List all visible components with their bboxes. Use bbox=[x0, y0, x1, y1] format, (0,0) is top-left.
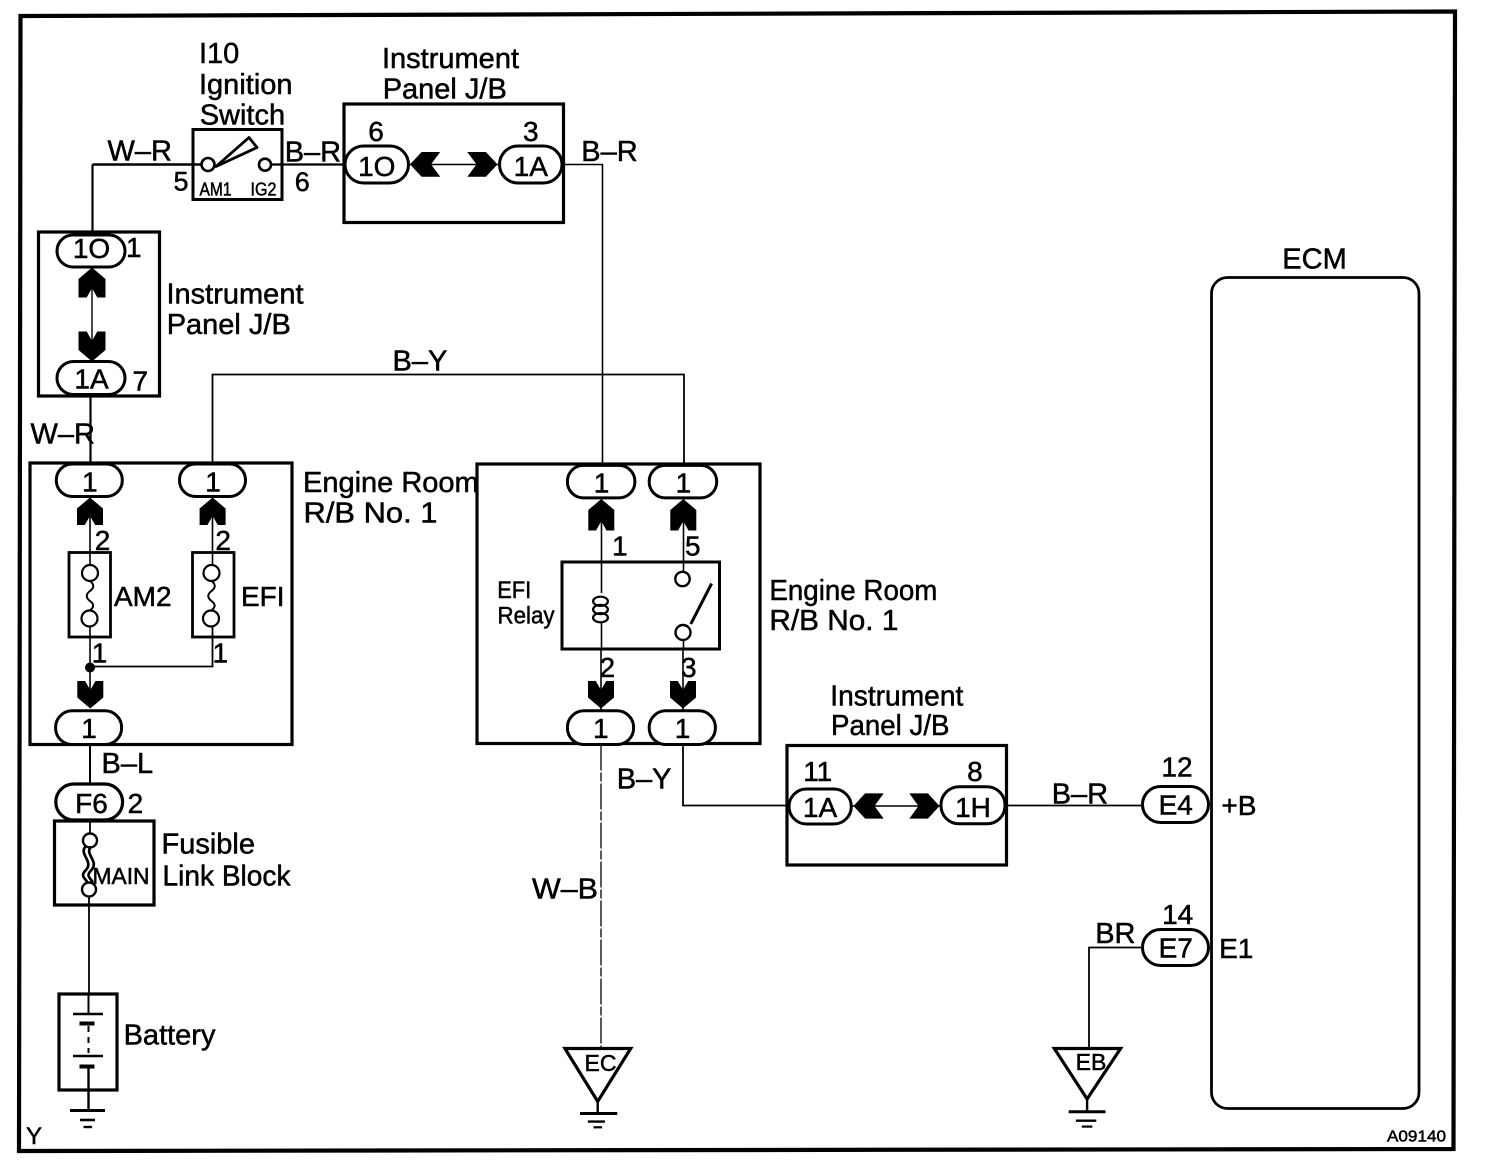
svg-text:1A: 1A bbox=[74, 364, 109, 395]
svg-text:3: 3 bbox=[523, 116, 539, 147]
svg-text:1: 1 bbox=[593, 713, 609, 744]
arrow down (to oval 1) bbox=[77, 681, 103, 709]
svg-text:2: 2 bbox=[600, 652, 616, 683]
arrow down (left J/B) bbox=[79, 332, 106, 362]
arrow up (coil) bbox=[588, 499, 614, 531]
connector oval F6 bbox=[56, 784, 123, 820]
wire W-B down to EC ground bbox=[600, 745, 602, 1049]
svg-text:1: 1 bbox=[82, 467, 98, 498]
svg-text:1H: 1H bbox=[955, 792, 991, 823]
arrow up (AM2) bbox=[77, 498, 103, 526]
svg-text:EC: EC bbox=[585, 1050, 617, 1076]
svg-text:5: 5 bbox=[685, 531, 701, 562]
fuse EFI bbox=[193, 553, 235, 638]
svg-text:MAIN: MAIN bbox=[93, 863, 150, 889]
wire BR from E7 to EB ground bbox=[1089, 948, 1143, 1049]
svg-text:E1: E1 bbox=[1219, 933, 1253, 964]
wire to battery bbox=[88, 897, 90, 995]
instrument panel J/B (bottom) box bbox=[787, 746, 1007, 866]
svg-text:Y: Y bbox=[26, 1123, 42, 1150]
connector line inside J/B bbox=[409, 164, 500, 166]
engine room R/B No.1 (relay) box bbox=[477, 464, 760, 744]
svg-text:12: 12 bbox=[1161, 752, 1192, 783]
arrow down (coil) bbox=[588, 681, 614, 709]
svg-text:Battery: Battery bbox=[124, 1020, 216, 1052]
svg-text:Fusible: Fusible bbox=[162, 829, 256, 861]
instrument panel J/B (left) label bbox=[167, 279, 304, 342]
wire B-L down to F6 bbox=[89, 745, 91, 786]
wire B-R from 1H to ECM E4 bbox=[1005, 805, 1143, 807]
svg-text:B–Y: B–Y bbox=[617, 764, 672, 796]
ignition switch I10 box bbox=[193, 130, 282, 200]
svg-text:BR: BR bbox=[1095, 918, 1135, 950]
svg-text:Engine Room: Engine Room bbox=[303, 467, 479, 499]
svg-text:14: 14 bbox=[1162, 899, 1193, 930]
svg-text:W–B: W–B bbox=[532, 874, 598, 906]
svg-text:1: 1 bbox=[594, 468, 610, 499]
arrow down (sw) bbox=[670, 681, 696, 709]
wire sw top bbox=[683, 498, 685, 562]
svg-text:1: 1 bbox=[81, 713, 97, 744]
chevron left (J/B bottom) bbox=[854, 793, 884, 818]
svg-text:AM2: AM2 bbox=[114, 581, 172, 612]
connector oval 1A bbox=[789, 789, 851, 824]
connector oval 1 (coil bottom) bbox=[567, 711, 633, 745]
svg-text:1O: 1O bbox=[73, 233, 110, 264]
switch contact IG2 bbox=[259, 159, 271, 171]
wire B-R switch to instrument panel J/B bbox=[271, 163, 346, 165]
ground EB bbox=[1054, 1049, 1120, 1100]
svg-text:W–R: W–R bbox=[108, 135, 172, 167]
battery symbol bbox=[88, 994, 90, 1013]
svg-text:1: 1 bbox=[213, 638, 229, 669]
relay coil bbox=[601, 562, 603, 593]
connector oval 1 (relay sw top) bbox=[649, 465, 717, 498]
svg-text:B–R: B–R bbox=[581, 136, 637, 168]
svg-text:R/B No. 1: R/B No. 1 bbox=[304, 498, 438, 530]
svg-text:EB: EB bbox=[1076, 1049, 1107, 1075]
wire sw bottom bbox=[682, 649, 684, 710]
connector oval 1 (relay coil top) bbox=[567, 465, 635, 498]
svg-text:1O: 1O bbox=[358, 151, 395, 182]
wire B-Y from EFI oval up and across to relay block bbox=[213, 375, 685, 465]
svg-text:EFI: EFI bbox=[497, 577, 531, 604]
wire W-R from 1A down to R/B bbox=[89, 395, 91, 465]
engine room R/B No.1 (relay) label bbox=[769, 575, 937, 637]
svg-text:R/B No. 1: R/B No. 1 bbox=[769, 605, 898, 637]
svg-text:1A: 1A bbox=[514, 151, 549, 182]
svg-text:1: 1 bbox=[676, 468, 692, 499]
switch lever bbox=[216, 138, 257, 167]
svg-text:8: 8 bbox=[967, 756, 983, 787]
svg-text:IG2: IG2 bbox=[251, 180, 277, 200]
ECM box bbox=[1212, 278, 1420, 1109]
wire coil bottom bbox=[600, 649, 602, 710]
instrument panel J/B (top) label bbox=[382, 43, 519, 106]
svg-text:Instrument: Instrument bbox=[167, 279, 304, 311]
svg-text:11: 11 bbox=[803, 756, 832, 787]
svg-text:1: 1 bbox=[126, 232, 142, 263]
arrow up (left J/B) bbox=[79, 268, 106, 298]
wire EFI fuse down and left to junction bbox=[90, 627, 213, 667]
arrow up (EFI) bbox=[200, 498, 226, 526]
svg-text:Relay: Relay bbox=[498, 603, 555, 630]
svg-text:F6: F6 bbox=[75, 788, 108, 819]
svg-text:A09140: A09140 bbox=[1387, 1129, 1446, 1146]
svg-text:6: 6 bbox=[295, 167, 310, 197]
svg-text:1A: 1A bbox=[803, 792, 838, 823]
battery box bbox=[59, 994, 117, 1090]
instrument panel J/B (left) box bbox=[39, 232, 160, 396]
svg-text:E4: E4 bbox=[1159, 790, 1193, 821]
svg-text:B–R: B–R bbox=[285, 137, 341, 169]
connector oval E7 bbox=[1143, 930, 1209, 966]
svg-text:1: 1 bbox=[205, 467, 221, 498]
chevron left (J/B top) bbox=[410, 152, 440, 177]
wire coil top bbox=[601, 498, 603, 562]
wire B-R from 1A down to relay block bbox=[562, 165, 603, 464]
svg-text:Ignition: Ignition bbox=[199, 69, 293, 101]
svg-text:+B: +B bbox=[1221, 790, 1256, 821]
wire W-R from corner to switch pin 5 bbox=[93, 163, 203, 165]
wire B-Y from sw bottom oval to J/B 1A bbox=[683, 745, 789, 806]
svg-text:1: 1 bbox=[92, 638, 108, 669]
instrument panel J/B (bottom) label bbox=[830, 681, 963, 743]
connector oval 1 (sw bottom) bbox=[649, 711, 715, 745]
connector oval 1 (bottom) bbox=[56, 711, 122, 745]
fusible link block label bbox=[162, 829, 291, 893]
junction dot bbox=[85, 663, 95, 673]
svg-text:B–R: B–R bbox=[1052, 779, 1108, 811]
svg-text:W–R: W–R bbox=[31, 419, 95, 451]
connector oval 1H bbox=[941, 787, 1005, 824]
connector line inside left J/B bbox=[91, 241, 93, 361]
chevron right (J/B top) bbox=[467, 152, 497, 177]
svg-text:ECM: ECM bbox=[1282, 244, 1346, 276]
chevron right (J/B bottom) bbox=[909, 793, 939, 818]
EFI relay label bbox=[497, 577, 554, 630]
instrument panel J/B (top) box bbox=[344, 104, 564, 223]
connector oval 1 (EFI top) bbox=[180, 464, 246, 497]
wire AM2 fuse to junction and down bbox=[89, 627, 91, 704]
svg-text:Instrument: Instrument bbox=[830, 681, 963, 713]
svg-text:E7: E7 bbox=[1159, 933, 1193, 964]
connector oval 1 (AM2 top) bbox=[56, 464, 122, 497]
svg-text:B–L: B–L bbox=[102, 748, 154, 780]
svg-text:Panel J/B: Panel J/B bbox=[167, 309, 291, 341]
svg-text:EFI: EFI bbox=[241, 581, 285, 612]
EFI relay box bbox=[562, 562, 720, 649]
connector oval 1A bbox=[500, 146, 563, 183]
svg-text:Switch: Switch bbox=[200, 100, 285, 132]
fusible link MAIN bbox=[89, 820, 91, 834]
svg-text:B–Y: B–Y bbox=[393, 346, 448, 378]
svg-text:Instrument: Instrument bbox=[382, 43, 519, 75]
svg-text:2: 2 bbox=[128, 788, 144, 819]
svg-text:1: 1 bbox=[612, 531, 628, 562]
svg-text:Engine Room: Engine Room bbox=[769, 575, 937, 607]
connector oval 1O bbox=[345, 146, 409, 183]
wire W-R down to instrument panel J/B (left) bbox=[91, 165, 93, 237]
svg-text:Panel J/B: Panel J/B bbox=[831, 710, 950, 742]
ground EC bbox=[565, 1049, 631, 1102]
arrow up (sw) bbox=[670, 499, 696, 531]
engine room R/B No.1 (left) label bbox=[303, 467, 479, 530]
fuse AM2 bbox=[69, 553, 111, 638]
fusible link block box bbox=[55, 821, 155, 905]
svg-text:1: 1 bbox=[675, 713, 691, 744]
connector oval E4 bbox=[1143, 787, 1209, 823]
svg-text:AM1: AM1 bbox=[200, 180, 232, 200]
svg-text:Link Block: Link Block bbox=[163, 861, 291, 893]
wire EFI column upper bbox=[212, 497, 214, 566]
relay switch bbox=[683, 562, 685, 572]
wire AM2 column upper bbox=[89, 497, 91, 566]
ignition switch I10 label bbox=[199, 38, 293, 132]
svg-text:7: 7 bbox=[133, 366, 149, 397]
connector oval 1O bbox=[57, 235, 125, 267]
connector line inside bottom J/B bbox=[851, 805, 941, 807]
svg-text:5: 5 bbox=[174, 167, 189, 197]
switch contact AM1 bbox=[202, 158, 215, 171]
connector oval 1A bbox=[57, 362, 125, 395]
svg-text:I10: I10 bbox=[199, 38, 239, 70]
svg-text:Panel J/B: Panel J/B bbox=[383, 74, 507, 106]
svg-text:6: 6 bbox=[368, 116, 384, 147]
ground (battery) bbox=[70, 1109, 105, 1112]
engine room R/B No.1 (left) box bbox=[30, 463, 292, 745]
